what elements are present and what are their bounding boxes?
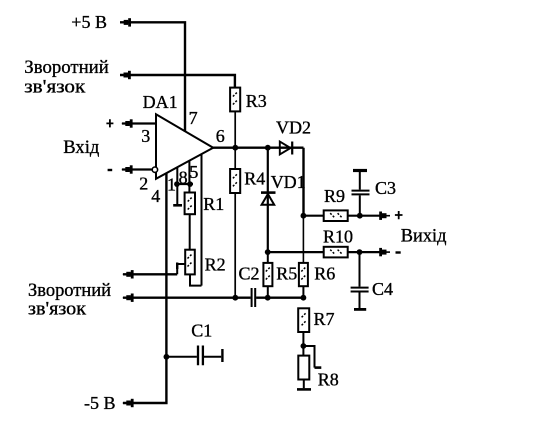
terminal arrow output plus [379,212,390,220]
wire R9 line [303,215,380,217]
resistor R2 [185,250,195,275]
svg-text:R3: R3 [246,91,267,111]
svg-text:C4: C4 [372,279,393,299]
diode VD2 [280,142,292,155]
wire inverting input [122,168,152,170]
wire R8 wiper tap [303,346,321,368]
node dot pin1 bridge [174,181,180,187]
svg-text:C3: C3 [375,178,396,198]
terminal arrow feedback mid [123,270,134,278]
svg-text:6: 6 [216,126,225,146]
capacitor C1 [166,346,222,366]
terminal arrow feedback bottom [123,294,134,302]
capacitor C4 [351,252,369,309]
resistor R4 [230,169,240,193]
svg-text:R7: R7 [314,309,335,329]
svg-text:зв'язок: зв'язок [24,77,86,98]
resistor R1 [185,193,195,215]
svg-text:4: 4 [151,186,160,206]
svg-text:Вхід: Вхід [63,137,99,158]
resistor R5 [263,263,272,286]
label plus input [106,119,113,127]
node dot R9 left [301,213,307,219]
resistor R9 [324,210,348,221]
svg-text:+5 В: +5 В [71,12,107,32]
wire +5V rail [120,22,185,131]
label minus input [108,169,113,171]
svg-text:R9: R9 [324,186,345,206]
resistor R7 [298,308,309,332]
svg-text:7: 7 [189,108,198,128]
wire VD1 branch [267,148,269,252]
wire R8 top [302,346,304,356]
node dot R3/R4 [232,145,238,151]
op-amp DA1 triangle [156,114,213,179]
wire bridge pins 1-8 [175,183,194,185]
svg-text:5: 5 [189,162,198,182]
svg-text:2: 2 [139,174,148,194]
capacitor C3 [352,171,370,216]
svg-text:R1: R1 [203,194,224,214]
terminal arrow feedback top [120,71,131,79]
label output minus sign [396,251,401,253]
resistor R8 [298,356,309,380]
wire R3 bottom [234,111,236,147]
svg-text:-5 В: -5 В [84,393,116,413]
wire pin1 stem [176,167,178,204]
svg-text:R2: R2 [205,254,226,274]
wire R5 stems [267,252,269,298]
svg-text:DA1: DA1 [143,92,178,112]
node dot C3 [357,213,363,219]
terminal arrow +5V [120,18,131,26]
R1 wiper tap bar [173,204,182,207]
label output plus sign [395,211,403,219]
svg-text:3: 3 [141,126,150,146]
wire R8 bottom [303,380,305,389]
terminal arrow -5V [123,399,134,407]
svg-text:R10: R10 [323,227,353,247]
capacitor C2 [252,288,256,307]
terminal arrow input minus [122,165,133,173]
svg-text:Зворотний: Зворотний [24,57,109,78]
wire feedback1 to R2 wiper [123,273,177,275]
wire output pin6 [213,146,304,148]
node dot R10 left / VD1 bottom [265,249,271,255]
svg-text:C2: C2 [239,263,260,283]
wire R4 top [234,148,236,169]
wire feedback top [120,75,235,88]
wire pin4 to -5V rail [123,173,166,403]
svg-text:R8: R8 [318,370,339,390]
svg-text:зв'язок: зв'язок [28,299,87,320]
diode VD1 [261,193,276,205]
node dot R6 bottom [301,295,307,301]
wire feedback2 line right [256,297,303,299]
node dot C4 [357,249,363,255]
node dot VD1 branch [265,145,271,151]
svg-text:Вихід: Вихід [401,226,447,247]
wire noninverting input [122,122,156,124]
svg-text:R5: R5 [276,264,297,284]
terminal bar R8 bottom [297,388,311,391]
node dot R5 bottom [265,295,271,301]
wire R7 bottom [302,332,304,346]
node dot C1 tap [164,354,170,360]
wire VD2 down to R9 node [302,148,304,216]
node dot R4 bottom [232,295,238,301]
node dot R8 top [301,343,307,349]
wire R1 to R2 [189,214,191,250]
terminal arrow output minus [379,248,390,256]
wire pin8 stem [188,160,190,192]
svg-text:R4: R4 [244,168,265,188]
svg-text:C1: C1 [191,320,212,340]
wire pin5 stem [201,154,203,286]
wire R4 bottom [234,193,236,298]
svg-text:VD2: VD2 [276,117,311,137]
wire R6 bottom [302,286,304,298]
wire R9 node down to R6 [302,216,304,263]
svg-text:VD1: VD1 [271,172,306,192]
wire feedback2 line left [123,297,251,299]
node dot pin8 bridge [187,181,193,187]
wire R10 line [268,251,380,253]
resistor R10 [324,247,348,258]
resistor R3 [230,88,240,112]
resistor R6 [299,263,308,286]
inversion bubble [152,167,157,172]
terminal arrow input plus [122,119,133,127]
svg-text:R6: R6 [314,264,335,284]
wire R2 bottom hook [190,274,202,285]
wire R2 wiper tap [177,263,185,275]
